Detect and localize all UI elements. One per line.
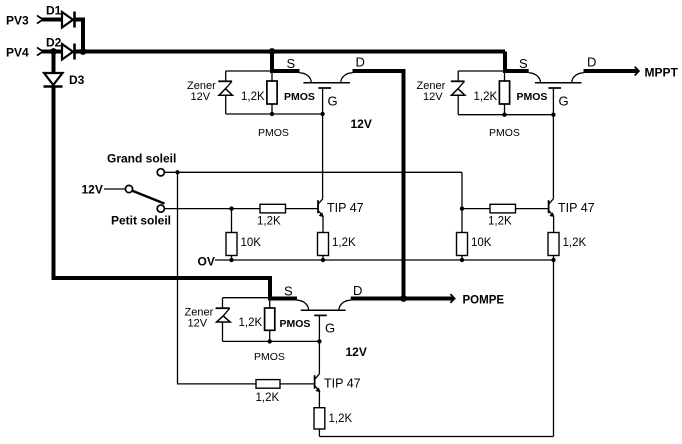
junction right emitter / 0V xyxy=(551,258,555,262)
label 1,2K (R2) xyxy=(257,216,281,228)
switch contact petit xyxy=(157,205,164,212)
label 1,2K (R11) xyxy=(329,413,353,425)
wire bottom return xyxy=(319,436,553,438)
right block bottom rail xyxy=(458,114,553,116)
PMOS U1 symbol xyxy=(300,73,353,88)
label MPPT xyxy=(645,66,679,80)
PV4 connector chevron xyxy=(37,48,43,56)
resistor R2 1,2K (Q1 base) xyxy=(260,204,318,213)
svg-text:POMPE: POMPE xyxy=(463,295,505,307)
junction R9 bottom xyxy=(268,339,272,343)
wire U1 drain to 12V bus down to POMPE line xyxy=(353,71,404,299)
switch pole contact xyxy=(125,185,132,192)
resistor R5 1,2K (Q3 base) xyxy=(490,204,549,213)
svg-text:12V: 12V xyxy=(346,345,367,359)
MPPT arrowhead xyxy=(635,67,639,76)
diode D1 xyxy=(62,12,75,28)
label PV4 xyxy=(6,46,29,60)
PMOS U3 symbol xyxy=(297,300,351,315)
label D1 xyxy=(46,4,62,18)
wire rail drop to left PMOS S xyxy=(272,52,300,72)
label D (U3) xyxy=(353,283,362,298)
label TIP 47 (Q3) xyxy=(558,201,595,215)
wire U2 drain to MPPT xyxy=(584,69,639,73)
svg-text:PMOS: PMOS xyxy=(280,318,311,330)
label G (U1) xyxy=(328,94,338,109)
junction PV4 / D3 node xyxy=(50,48,57,55)
bottom block bottom rail xyxy=(223,340,320,342)
svg-text:1,2K: 1,2K xyxy=(256,392,280,404)
label S (right PMOS) xyxy=(519,56,528,71)
svg-text:10K: 10K xyxy=(471,237,492,249)
junction right 10K / 0V xyxy=(460,258,464,262)
resistor R1 1,2K (left block) xyxy=(267,71,277,114)
label Grand soleil xyxy=(107,152,176,166)
zener Z1 xyxy=(218,81,232,95)
resistor R3 10K xyxy=(226,209,237,260)
label D (U2) xyxy=(587,55,596,70)
label PV3 xyxy=(6,14,29,28)
label D2 xyxy=(46,36,62,50)
wire U3 drain to POMPE xyxy=(351,297,454,301)
diode D3 xyxy=(44,73,63,87)
label 1,2K (R4) xyxy=(332,237,356,249)
junction R1 bottom xyxy=(270,112,274,116)
wire top 12V rail from PV diodes xyxy=(76,50,506,54)
svg-text:1,2K: 1,2K xyxy=(241,91,265,103)
label 12V (switch, bold) xyxy=(82,183,103,197)
svg-text:G: G xyxy=(559,94,569,109)
switch arm xyxy=(132,191,164,204)
wire PV4 node to D3 xyxy=(52,53,56,73)
zener Z2 xyxy=(451,81,465,95)
label D3 xyxy=(69,73,85,87)
label 12V net (bottom, bold) xyxy=(346,345,367,359)
wire Q4 emitter xyxy=(318,392,320,408)
junction R4 / 0V xyxy=(321,258,325,262)
label 1,2K (R1) xyxy=(241,91,265,103)
junction D1 branch on rail xyxy=(80,48,87,55)
svg-text:OV: OV xyxy=(198,255,215,269)
wire Q1 emitter xyxy=(322,217,324,233)
resistor R7 1,2K (Q3 emitter) xyxy=(548,233,559,261)
label PMOS U2 (bold) xyxy=(517,91,548,103)
wire D1 cathode down to rail xyxy=(76,20,84,52)
svg-text:S: S xyxy=(519,56,528,71)
label 10K (R3) xyxy=(241,237,262,249)
label 10K (R6) xyxy=(471,237,492,249)
label PMOS (below left block) xyxy=(258,127,289,139)
wire rail drop to right PMOS S xyxy=(505,52,529,72)
label Petit soleil xyxy=(111,214,171,228)
zener Z1 wires xyxy=(225,71,227,114)
svg-text:PMOS: PMOS xyxy=(284,91,315,103)
label G (U2) xyxy=(559,94,569,109)
svg-text:PMOS: PMOS xyxy=(517,91,548,103)
switch contact grand xyxy=(157,169,164,176)
svg-text:MPPT: MPPT xyxy=(645,66,679,80)
svg-text:10K: 10K xyxy=(241,237,262,249)
label 1,2K (R5) xyxy=(488,216,512,228)
svg-text:S: S xyxy=(284,284,293,299)
svg-text:12V: 12V xyxy=(188,318,208,330)
POMPE arrowhead xyxy=(450,294,454,303)
wire to R5 xyxy=(462,208,490,210)
resistor R8 1,2K (right block) xyxy=(499,71,509,115)
transistor Q1 TIP 47 (left) xyxy=(318,199,324,217)
0V rail xyxy=(215,259,554,261)
junction grand line tap xyxy=(175,170,179,174)
PMOS U2 symbol xyxy=(529,73,584,88)
wire R10 to Q4 base xyxy=(280,383,314,385)
label 1,2K (R9) xyxy=(239,317,263,329)
zener Z3 xyxy=(216,308,231,322)
svg-text:1,2K: 1,2K xyxy=(332,237,356,249)
svg-text:PMOS: PMOS xyxy=(489,127,520,139)
svg-text:D: D xyxy=(587,55,596,70)
junction U3 gate / bottom rail xyxy=(317,339,321,343)
label POMPE xyxy=(463,295,505,307)
zener Z3 wires xyxy=(222,298,224,342)
svg-text:12V: 12V xyxy=(423,91,443,103)
wire grand soleil line xyxy=(165,171,462,173)
resistor R10 1,2K (Q4 base) xyxy=(256,380,280,389)
PV3 connector chevron xyxy=(37,16,43,24)
svg-text:1,2K: 1,2K xyxy=(239,317,263,329)
resistor R11 1,2K (Q4 emitter) xyxy=(314,408,325,437)
svg-text:G: G xyxy=(325,321,335,336)
wire U3 gate down to Q4 collector xyxy=(318,315,320,374)
svg-text:PV3: PV3 xyxy=(6,14,29,28)
wire D3 to bottom PMOS source (PV bus) xyxy=(54,88,298,299)
junction gate / bottom rail xyxy=(320,112,324,116)
junction U2 gate / bottom rail xyxy=(551,113,555,117)
svg-text:TIP 47: TIP 47 xyxy=(324,377,361,391)
svg-text:PMOS: PMOS xyxy=(258,127,289,139)
wire grand line down to Q3 base / 10K xyxy=(461,172,463,232)
svg-text:1,2K: 1,2K xyxy=(257,216,281,228)
diode D2 xyxy=(62,44,75,60)
label Zener 12V (right block) xyxy=(417,80,446,103)
zener Z2 wires xyxy=(457,71,459,115)
wire PV4 to D2 xyxy=(42,50,62,54)
resistor R6 10K (right) xyxy=(457,233,468,261)
svg-text:PMOS: PMOS xyxy=(254,351,285,363)
svg-text:D: D xyxy=(353,283,362,298)
svg-text:TIP 47: TIP 47 xyxy=(558,201,595,215)
label S (left PMOS) xyxy=(287,56,296,71)
wire Q3 emitter xyxy=(553,217,555,233)
label TIP 47 (Q1) xyxy=(327,201,364,215)
svg-text:Grand soleil: Grand soleil xyxy=(107,152,176,166)
junction 10K / 0V xyxy=(229,258,233,262)
resistor R9 1,2K (bottom block) xyxy=(265,298,275,342)
svg-text:12V: 12V xyxy=(82,183,103,197)
svg-text:D3: D3 xyxy=(69,73,85,87)
wire petit soleil line to R2 xyxy=(165,208,260,210)
svg-text:1,2K: 1,2K xyxy=(474,91,498,103)
label PMOS (below bottom block) xyxy=(254,351,285,363)
bottom PMOS block top rail xyxy=(223,297,270,299)
junction R8 bottom xyxy=(502,113,506,117)
svg-text:12V: 12V xyxy=(191,91,211,103)
svg-text:D2: D2 xyxy=(46,36,62,50)
svg-text:G: G xyxy=(328,94,338,109)
svg-text:12V: 12V xyxy=(351,117,372,131)
label OV xyxy=(198,255,215,269)
svg-text:D: D xyxy=(356,55,365,70)
svg-text:TIP 47: TIP 47 xyxy=(327,201,364,215)
right PMOS block top rail xyxy=(458,70,505,72)
junction rail to left PMOS source xyxy=(269,48,276,55)
transistor Q4 TIP 47 (bottom) xyxy=(315,374,321,392)
svg-text:Petit soleil: Petit soleil xyxy=(111,214,171,228)
left block bottom rail xyxy=(226,113,323,115)
wire PV3 to D1 xyxy=(42,18,62,22)
junction Q3 base tap xyxy=(460,206,464,210)
wire 12V to switch pole xyxy=(104,188,126,190)
label PMOS (below right block) xyxy=(489,127,520,139)
wire U2 gate down to Q3 collector xyxy=(552,88,554,199)
label Zener 12V (bottom block) xyxy=(185,307,214,330)
left PMOS block top rail xyxy=(226,70,272,72)
resistor R4 1,2K (Q1 emitter) xyxy=(318,233,329,261)
label S (bottom PMOS) xyxy=(284,284,293,299)
label 1,2K (R8) xyxy=(474,91,498,103)
label 1,2K (R10) xyxy=(256,392,280,404)
label TIP 47 (Q4) xyxy=(324,377,361,391)
svg-text:D1: D1 xyxy=(46,4,62,18)
svg-text:PV4: PV4 xyxy=(6,46,29,60)
label G (U3) xyxy=(325,321,335,336)
junction 12V bus / POMPE line xyxy=(400,295,407,302)
label PMOS U3 (bold) xyxy=(280,318,311,330)
svg-text:1,2K: 1,2K xyxy=(488,216,512,228)
wire U1 gate down to Q1 collector xyxy=(322,88,324,199)
label PMOS U1 (bold) xyxy=(284,91,315,103)
svg-text:1,2K: 1,2K xyxy=(563,237,587,249)
label 1,2K (R7) xyxy=(563,237,587,249)
wire grand tap down to Q4 base resistor xyxy=(178,172,257,384)
wire right return down xyxy=(553,260,555,437)
label 12V net (left, bold) xyxy=(351,117,372,131)
junction petit line / 10K xyxy=(229,206,233,210)
svg-text:1,2K: 1,2K xyxy=(329,413,353,425)
label D (U1) xyxy=(356,55,365,70)
label Zener 12V (left block) xyxy=(187,80,216,103)
transistor Q3 TIP 47 (right) xyxy=(549,199,555,217)
svg-text:S: S xyxy=(287,56,296,71)
